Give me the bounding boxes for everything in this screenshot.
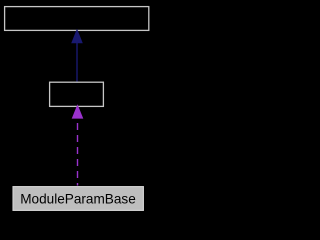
node: middle intermediate-class box (empty) (50, 82, 104, 106)
node: top base-class box (empty) (5, 7, 149, 31)
node ModuleParamBase (current class, filled grey) (13, 187, 143, 211)
svg-text:ModuleParamBase: ModuleParamBase (20, 192, 136, 207)
inheritance arrow (solid, midnightblue) from middle box to top box (71, 29, 83, 82)
template/usage arrow (dashed, darkorchid) from ModuleParamBase to middle box (72, 104, 84, 185)
